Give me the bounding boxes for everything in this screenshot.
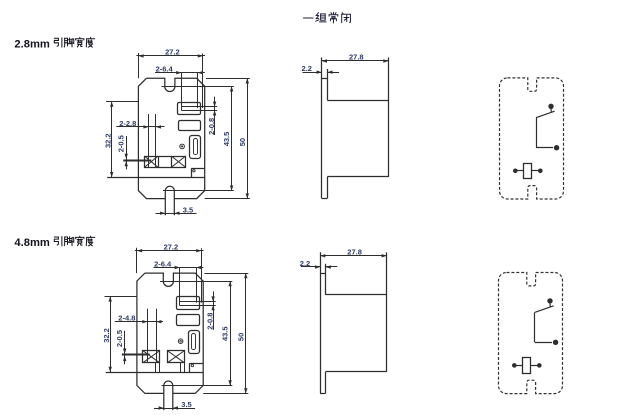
svg-text:2-6.4: 2-6.4 — [154, 259, 172, 268]
svg-text:50: 50 — [237, 333, 246, 341]
svg-text:50: 50 — [238, 138, 247, 146]
svg-text:27.2: 27.2 — [164, 242, 179, 251]
svg-text:27.2: 27.2 — [165, 48, 180, 57]
svg-text:27.8: 27.8 — [349, 53, 364, 62]
svg-text:2.2: 2.2 — [300, 259, 310, 268]
svg-text:2-0.5: 2-0.5 — [116, 135, 125, 152]
svg-text:2-2.8: 2-2.8 — [119, 119, 136, 128]
svg-text:4.8mm: 4.8mm — [14, 237, 49, 249]
svg-text:32.2: 32.2 — [102, 328, 111, 343]
svg-text:2-6.4: 2-6.4 — [156, 65, 174, 74]
svg-text:3.5: 3.5 — [181, 400, 191, 409]
svg-text:2.2: 2.2 — [302, 64, 312, 73]
svg-text:3.5: 3.5 — [183, 205, 193, 214]
svg-text:43.5: 43.5 — [220, 326, 229, 341]
svg-text:32.2: 32.2 — [103, 133, 112, 148]
svg-text:2-0.5: 2-0.5 — [115, 330, 124, 347]
svg-text:2-0.8: 2-0.8 — [207, 118, 216, 135]
svg-text:2-0.8: 2-0.8 — [206, 313, 215, 330]
svg-text:2.8mm: 2.8mm — [14, 38, 49, 50]
svg-text:2-4.8: 2-4.8 — [118, 314, 135, 323]
svg-text:27.8: 27.8 — [347, 248, 362, 257]
svg-text:43.5: 43.5 — [222, 132, 231, 147]
